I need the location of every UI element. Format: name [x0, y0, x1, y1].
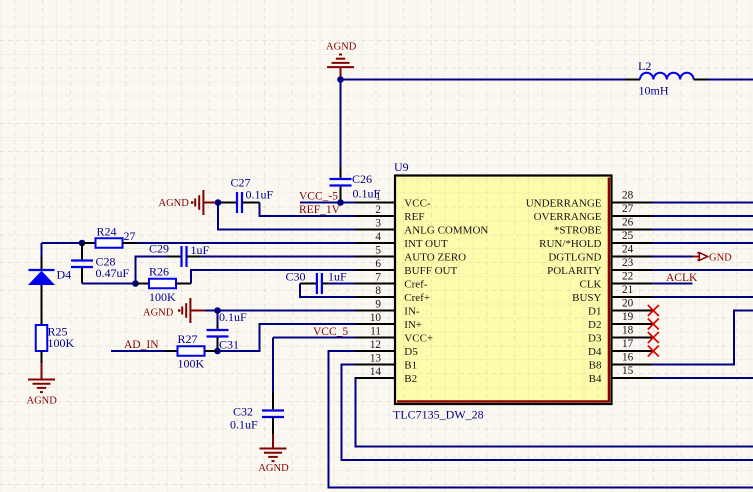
svg-text:Cref-: Cref- [404, 278, 428, 290]
junction R26/C29 node [132, 280, 139, 287]
pin 10 IN+ [355, 312, 422, 331]
wire C30 left to Cref+ pin 8 [300, 284, 356, 298]
svg-text:C30: C30 [286, 269, 306, 283]
svg-text:R24: R24 [97, 224, 117, 238]
wire B2 pin 14 route to bottom right [356, 378, 753, 447]
pin 26 *STROBE [554, 217, 652, 237]
wire D5 pin 12 route to bottom right [329, 351, 753, 488]
svg-text:AGND: AGND [326, 42, 357, 53]
pin 1 VCC- [355, 191, 431, 210]
power port AGND (below R25) [27, 363, 58, 406]
net label VCC_5 [313, 326, 348, 338]
svg-text:B1: B1 [404, 359, 417, 371]
svg-text:0.47uF: 0.47uF [96, 266, 130, 280]
power port AGND (top) [326, 42, 357, 80]
svg-text:27: 27 [622, 203, 634, 215]
svg-text:C29: C29 [149, 241, 169, 255]
svg-text:D5: D5 [404, 346, 418, 358]
svg-text:5: 5 [375, 245, 381, 257]
svg-text:IN+: IN+ [404, 319, 422, 331]
svg-text:INT OUT: INT OUT [404, 238, 448, 250]
svg-text:IN-: IN- [404, 305, 420, 317]
IC U9 body fill [395, 176, 612, 405]
svg-text:ANLG COMMON: ANLG COMMON [404, 224, 488, 236]
pin 20 D1 [588, 298, 652, 318]
wire D4 top to R24 node [42, 243, 84, 257]
svg-text:VCC_-5: VCC_-5 [299, 190, 338, 202]
svg-text:D1: D1 [588, 305, 601, 317]
svg-text:R26: R26 [149, 264, 169, 278]
wire AGND to IN- pin 9 [205, 310, 356, 312]
svg-text:AGND: AGND [143, 307, 174, 318]
svg-text:L2: L2 [638, 59, 651, 73]
svg-text:UNDERRANGE: UNDERRANGE [526, 197, 602, 209]
pin 14 B2 [355, 366, 417, 385]
svg-text:12: 12 [370, 339, 381, 351]
wire pin 27 to right edge [652, 215, 753, 217]
svg-text:BUFF OUT: BUFF OUT [404, 265, 457, 277]
resistor R24 27 [83, 224, 137, 247]
wire pin 25 to right edge [652, 242, 753, 244]
svg-text:AGND: AGND [27, 395, 58, 406]
svg-text:D2: D2 [588, 319, 601, 331]
svg-text:19: 19 [622, 311, 634, 323]
resistor R25 100K [36, 324, 75, 363]
svg-text:ACLK: ACLK [666, 272, 698, 284]
wire pin 22 CLK stub (net ACLK) [652, 283, 693, 285]
junction at top AGND node [337, 76, 344, 83]
svg-text:14: 14 [370, 366, 382, 378]
svg-text:C26: C26 [352, 172, 372, 186]
svg-text:B4: B4 [589, 373, 602, 385]
wire C30 to Cref- pin 7 [328, 283, 356, 285]
svg-text:AD_IN: AD_IN [124, 339, 159, 351]
svg-text:AGND: AGND [159, 198, 190, 209]
op-amp/IC U9 TLC7135_DW_28 outline [395, 176, 612, 405]
svg-text:24: 24 [622, 244, 634, 256]
pin 19 D2 [588, 311, 652, 331]
wire L2 to right edge [708, 79, 753, 81]
pin 8 Cref+ [355, 285, 430, 304]
wire net VCC_-5 [300, 202, 356, 204]
svg-text:22: 22 [622, 271, 633, 283]
wire pin 23 to right edge [652, 269, 753, 271]
pin 23 POLARITY [547, 257, 652, 277]
wire R26 to BUFF OUT pin 6 [191, 270, 356, 284]
svg-text:27: 27 [124, 229, 136, 243]
svg-text:R27: R27 [178, 332, 198, 346]
wire pin 26 to right edge [652, 229, 753, 231]
wire pin 28 to right edge [652, 202, 753, 204]
svg-text:U9: U9 [394, 160, 409, 174]
svg-text:B8: B8 [589, 359, 602, 371]
svg-text:1: 1 [375, 191, 381, 203]
pin 3 ANLG COMMON [355, 218, 488, 237]
svg-text:11: 11 [370, 326, 381, 338]
wire top node down to C26 [340, 80, 342, 178]
junction AGND/C27 node [215, 199, 222, 206]
junction R24/C28 node [79, 240, 86, 247]
svg-text:2: 2 [375, 204, 381, 216]
capacitor C26 0.1uF [330, 172, 381, 203]
svg-text:0.1uF: 0.1uF [219, 310, 247, 324]
wire C29 to AUTO ZERO pin 5 [200, 256, 356, 258]
net label ACLK [666, 272, 698, 284]
svg-text:GND: GND [709, 253, 732, 264]
pin 2 REF [355, 204, 424, 223]
pin 17 D4 [588, 338, 652, 358]
power port AGND (below C32) [258, 434, 289, 474]
wire net AD_IN [111, 350, 165, 352]
svg-text:15: 15 [622, 365, 634, 377]
svg-text:4: 4 [375, 231, 381, 243]
pin 5 AUTO ZERO [355, 245, 466, 264]
wire pin 21 to right edge [652, 296, 753, 298]
net label VCC_-5 [299, 190, 338, 202]
svg-text:RUN/*HOLD: RUN/*HOLD [539, 238, 601, 250]
pin 21 BUSY [572, 284, 652, 304]
pin 15 B4 [589, 365, 652, 385]
svg-text:20: 20 [622, 298, 634, 310]
inductor L2 [626, 59, 709, 98]
resistor R26 100K [136, 264, 192, 304]
wire top horizontal to L2 [341, 79, 626, 81]
svg-text:C31: C31 [219, 337, 239, 351]
svg-text:9: 9 [375, 299, 381, 311]
pin 18 D3 [588, 325, 652, 345]
resistor R27 100K [165, 332, 218, 371]
svg-text:17: 17 [622, 338, 634, 350]
net label REF_1V [299, 204, 341, 216]
pin 4 INT OUT [355, 231, 448, 250]
svg-text:1uF: 1uF [191, 243, 210, 257]
net label AD_IN [124, 339, 159, 351]
power port AGND (near IN-) [143, 298, 205, 323]
pin 9 IN- [355, 299, 420, 318]
pin 28 UNDERRANGE [526, 190, 652, 210]
svg-text:D3: D3 [588, 332, 602, 344]
no-connect X pin 19 [648, 319, 659, 330]
svg-text:7: 7 [375, 272, 381, 284]
svg-text:26: 26 [622, 217, 634, 229]
svg-text:B2: B2 [404, 373, 417, 385]
svg-text:TLC7135_DW_28: TLC7135_DW_28 [393, 408, 484, 422]
svg-text:OVERRANGE: OVERRANGE [534, 211, 602, 223]
wire pin 24 to GND port [652, 256, 693, 258]
svg-text:100K: 100K [178, 356, 205, 370]
capacitor C28 0.47uF [71, 243, 130, 284]
capacitor C32 0.1uF [230, 392, 284, 434]
pin 24 DGTLGND [548, 244, 652, 264]
designator U9 [394, 160, 409, 174]
wire pin 15 B4 to right edge [652, 377, 753, 379]
svg-text:POLARITY: POLARITY [547, 265, 601, 277]
power port GND [693, 253, 733, 264]
svg-text:8: 8 [375, 285, 381, 297]
svg-text:10: 10 [370, 312, 382, 324]
no-connect X pin 17 [648, 346, 659, 357]
svg-text:VCC+: VCC+ [404, 332, 433, 344]
svg-text:VCC_5: VCC_5 [313, 326, 348, 338]
junction R27/C31 node [214, 348, 221, 355]
svg-text:D4: D4 [588, 346, 602, 358]
svg-text:BUSY: BUSY [572, 292, 601, 304]
svg-text:18: 18 [622, 325, 634, 337]
svg-text:AUTO ZERO: AUTO ZERO [404, 251, 466, 263]
svg-text:D4: D4 [57, 267, 72, 281]
wire C27 to REF pin 2 (net REF_1V) [260, 203, 357, 217]
pin 13 B1 [355, 353, 417, 372]
wire R27 to IN+ pin 10 [218, 324, 357, 351]
wire C29 branch vertical [136, 257, 168, 284]
svg-text:100K: 100K [149, 290, 176, 304]
pin 11 VCC+ [355, 326, 433, 345]
svg-text:16: 16 [622, 352, 634, 364]
pin 16 B8 [589, 352, 652, 372]
part name TLC7135_DW_28 [393, 408, 484, 422]
pin 6 BUFF OUT [355, 258, 457, 277]
capacitor C30 1uF [286, 269, 348, 294]
svg-text:3: 3 [375, 218, 381, 230]
no-connect X pin 18 [648, 332, 659, 343]
pin 12 D5 [355, 339, 418, 358]
capacitor C29 1uF [149, 241, 210, 267]
svg-text:6: 6 [375, 258, 381, 270]
capacitor C31 0.1uF [207, 310, 248, 352]
svg-text:10mH: 10mH [639, 84, 669, 98]
wire B1 pin 13 route to bottom right [342, 365, 753, 461]
svg-text:*STROBE: *STROBE [554, 224, 602, 236]
svg-text:0.1uF: 0.1uF [230, 418, 258, 432]
wire C28 bottom to R26/C29 node [82, 283, 136, 285]
svg-text:21: 21 [622, 284, 633, 296]
no-connect X pin 20 [648, 305, 659, 316]
svg-text:13: 13 [370, 353, 382, 365]
svg-text:REF_1V: REF_1V [299, 204, 341, 216]
svg-text:VCC-: VCC- [404, 197, 431, 209]
svg-text:100K: 100K [48, 336, 75, 350]
wire net VCC_5 to VCC+ pin 11 [273, 338, 356, 393]
wire R24 to INT OUT pin 4 [137, 242, 356, 244]
pin 25 RUN/*HOLD [539, 230, 652, 250]
svg-text:Cref+: Cref+ [404, 292, 430, 304]
svg-text:AGND: AGND [258, 463, 289, 474]
capacitor C27 0.1uF [218, 175, 274, 213]
junction IN-/C31 node [214, 307, 221, 314]
svg-text:0.1uF: 0.1uF [246, 187, 274, 201]
svg-text:C32: C32 [233, 405, 253, 419]
power port AGND (near C27) [159, 190, 219, 215]
wire pin 16 B8 route to right edge [652, 311, 753, 365]
pin 22 CLK [580, 271, 653, 291]
diode D4 [28, 257, 71, 325]
svg-text:28: 28 [622, 190, 634, 202]
wire AGND node to ANLG COMMON pin 3 [218, 203, 356, 230]
junction VCC_-5 node [337, 199, 344, 206]
pin 7 Cref- [355, 272, 428, 291]
pin 27 OVERRANGE [534, 203, 652, 223]
svg-text:1uF: 1uF [328, 269, 347, 283]
svg-text:CLK: CLK [580, 278, 602, 290]
svg-text:25: 25 [622, 230, 634, 242]
svg-text:REF: REF [404, 211, 424, 223]
svg-text:23: 23 [622, 257, 634, 269]
svg-text:DGTLGND: DGTLGND [548, 251, 601, 263]
